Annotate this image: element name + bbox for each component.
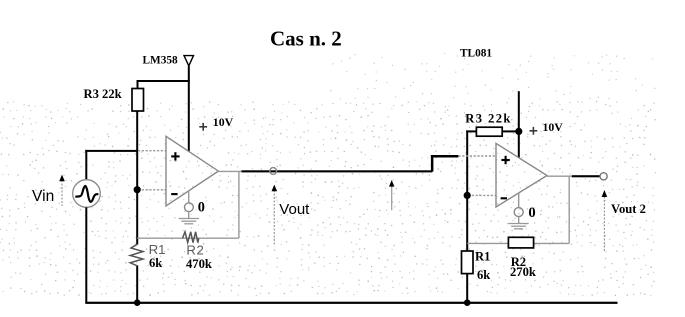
node - input gray lead: [138, 189, 166, 191]
wire top horizontal (R3 to supply rail): [137, 80, 190, 82]
svg-text:Vout: Vout: [279, 201, 310, 218]
svg-text:0: 0: [528, 205, 535, 221]
ground lower stem (right): [518, 217, 520, 224]
wire main vertical (right): [466, 130, 468, 303]
arrow mid signal: [391, 186, 393, 210]
junction dot (inverting node, right): [464, 192, 471, 199]
wire step vertical: [431, 155, 434, 172]
op-amp U2 - symbol: [501, 197, 507, 199]
node circle output (left): [270, 168, 277, 175]
op-amp U1 + symbol: [171, 152, 179, 160]
feedback gray vertical (right): [568, 176, 570, 243]
wire main vertical x=137 (R3 bottom to ground bus): [136, 111, 138, 245]
ground circle (right): [514, 208, 523, 217]
svg-text:Cas n. 2: Cas n. 2: [270, 27, 342, 51]
wire op-amp U1 output gray stub: [217, 170, 243, 172]
wire + input horizontal from source: [85, 150, 137, 152]
node - input gray lead (right): [468, 194, 496, 196]
svg-text:R1: R1: [475, 249, 490, 263]
wire op-amp U2 output gray stub: [545, 175, 572, 177]
source Vin circle: [73, 180, 101, 208]
svg-text:6k: 6k: [477, 268, 490, 282]
antenna symbol: [184, 56, 194, 66]
op-amp U2 + symbol: [501, 156, 509, 164]
arrow Vout (left): [273, 190, 275, 246]
junction dot (bottom left): [134, 299, 141, 306]
resistor R1 zigzag (left): [130, 244, 143, 265]
ground bus wire (bottom): [85, 302, 617, 304]
junction dot (inverting node, left): [134, 186, 141, 193]
wire output horizontal (to right circuit step): [242, 170, 433, 172]
ground stem (left): [188, 191, 190, 204]
svg-text:R1: R1: [149, 242, 166, 257]
svg-text:6k: 6k: [149, 256, 162, 270]
ground hatch (left): [179, 219, 199, 224]
ground hatch (right): [508, 224, 528, 229]
feedback gray vertical (left): [238, 171, 240, 238]
resistor R3 (left): [132, 89, 144, 112]
feedback gray horizontal (right): [467, 242, 569, 244]
op-amp U2 (TL081) triangle: [496, 143, 547, 207]
node + input gray lead (right): [458, 155, 496, 157]
wire source top vertical: [85, 150, 87, 181]
resistor R1 box (right): [462, 251, 474, 274]
arrow Vout 2: [603, 197, 605, 253]
arrow Vin: [61, 180, 63, 206]
wire R3 top stub: [137, 80, 139, 89]
feedback gray horizontal (left): [137, 237, 239, 239]
resistor R3 (right): [476, 127, 502, 136]
wire source bottom vertical: [85, 207, 87, 302]
wire V+ supply vertical (antenna to op-amp U1 top): [188, 66, 190, 152]
ground lower stem (left): [188, 212, 190, 219]
ground circle (left): [185, 203, 194, 212]
label +10V (left): [199, 123, 207, 131]
op-amp U1 - symbol: [171, 193, 177, 195]
label +10V (right): [530, 127, 538, 135]
svg-text:0: 0: [198, 200, 205, 216]
svg-text:R3 22k: R3 22k: [465, 112, 512, 126]
node + input gray lead: [138, 150, 166, 152]
wire R3 horizontal (right): [466, 130, 519, 132]
junction dot (+10V node, right): [515, 128, 522, 135]
wire V+ supply vertical (right): [518, 91, 520, 158]
resistor R2 box (right): [508, 237, 533, 248]
node circle output (right): [600, 173, 607, 180]
op-amp U1 (LM358) triangle: [166, 136, 218, 206]
svg-text:R2: R2: [186, 242, 204, 257]
ground stem (right): [518, 194, 520, 208]
svg-text:470k: 470k: [186, 257, 212, 271]
source waveform: [75, 186, 98, 202]
svg-text:R3 22k: R3 22k: [84, 87, 122, 101]
resistor R2 zigzag (left): [183, 232, 199, 243]
svg-text:Vin: Vin: [32, 188, 54, 205]
svg-text:10V: 10V: [213, 115, 234, 129]
svg-text:270k: 270k: [510, 265, 536, 279]
svg-text:TL081: TL081: [460, 47, 492, 59]
wire step horizontal: [431, 155, 459, 158]
wire output black (right): [572, 175, 600, 177]
svg-text:Vout 2: Vout 2: [611, 202, 646, 216]
junction dot (bottom right): [464, 299, 471, 306]
svg-text:LM358: LM358: [143, 55, 178, 67]
svg-text:10V: 10V: [543, 120, 564, 134]
